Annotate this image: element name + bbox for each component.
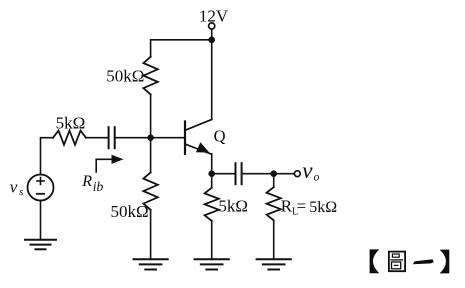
- transistor Q1 emitter lead with arrow: [185, 144, 212, 154]
- wire collector vertical: [211, 40, 213, 120]
- node base junction dot: [147, 135, 153, 141]
- svg-text:o: o: [314, 172, 320, 184]
- wire emitter vertical: [211, 154, 213, 188]
- wire R2 bottom to ground: [150, 210, 152, 259]
- svg-text:5kΩ: 5kΩ: [218, 197, 248, 216]
- wire cap to RL node: [243, 173, 274, 175]
- resistor RL: [267, 187, 281, 220]
- node Vcc junction dot: [208, 37, 215, 44]
- figure caption char one: [413, 259, 434, 264]
- vs plus sign: [37, 178, 44, 185]
- figure caption bracket right: [440, 250, 450, 274]
- wire RE bottom to ground: [211, 221, 213, 259]
- svg-text:50kΩ: 50kΩ: [106, 66, 144, 85]
- wire C1 to base: [116, 137, 151, 139]
- figure caption char tu (figure): [389, 252, 405, 272]
- svg-text:12V: 12V: [199, 6, 229, 25]
- wire RL vertical top: [273, 174, 275, 188]
- capacitor C2 output: [236, 163, 242, 184]
- wire RL bottom to ground: [273, 220, 275, 259]
- transistor Q1 base bar: [184, 122, 186, 155]
- wire base node down to R2: [150, 138, 152, 173]
- wire R1 bottom to base node: [150, 94, 152, 137]
- resistor RS 5k input: [53, 131, 86, 145]
- node output junction dot: [270, 170, 277, 177]
- svg-text:R: R: [81, 173, 92, 190]
- svg-text:Q: Q: [214, 126, 226, 145]
- wire vs top to input: [41, 138, 54, 175]
- svg-text:v: v: [10, 177, 18, 196]
- transistor Q1 collector lead: [185, 120, 212, 131]
- svg-text:5kΩ: 5kΩ: [56, 114, 86, 133]
- source vs circle: [28, 175, 54, 201]
- wire base: [151, 137, 185, 139]
- ground vs: [25, 240, 56, 250]
- resistor RE 5k: [205, 188, 219, 221]
- svg-text:R: R: [281, 197, 293, 216]
- wire emitter to output cap: [212, 173, 235, 175]
- resistor R2 50k lower: [143, 172, 157, 209]
- svg-text:5kΩ: 5kΩ: [309, 199, 337, 216]
- node emitter junction dot: [208, 170, 215, 177]
- wire RS to C1: [86, 137, 108, 139]
- ground RL: [257, 259, 291, 269]
- capacitor C1 input: [109, 127, 115, 148]
- ground R2: [134, 259, 168, 269]
- arrow Rib measurement: [96, 159, 113, 172]
- svg-text:50kΩ: 50kΩ: [111, 202, 149, 221]
- resistor R1 50k upper: [143, 57, 157, 95]
- svg-text:=: =: [297, 197, 307, 216]
- wire 12V stub: [211, 30, 213, 40]
- terminal vo open circle: [294, 171, 300, 177]
- vs minus sign: [37, 193, 44, 195]
- wire vs bottom to ground: [40, 201, 42, 240]
- wire top rail: [151, 40, 212, 57]
- svg-text:v: v: [302, 158, 313, 183]
- wire to vo terminal: [274, 173, 294, 175]
- svg-text:s: s: [19, 186, 23, 198]
- 12V supply terminal: [209, 23, 215, 29]
- ground RE: [195, 259, 229, 269]
- svg-text:ib: ib: [93, 179, 104, 194]
- figure caption bracket left: [370, 249, 380, 273]
